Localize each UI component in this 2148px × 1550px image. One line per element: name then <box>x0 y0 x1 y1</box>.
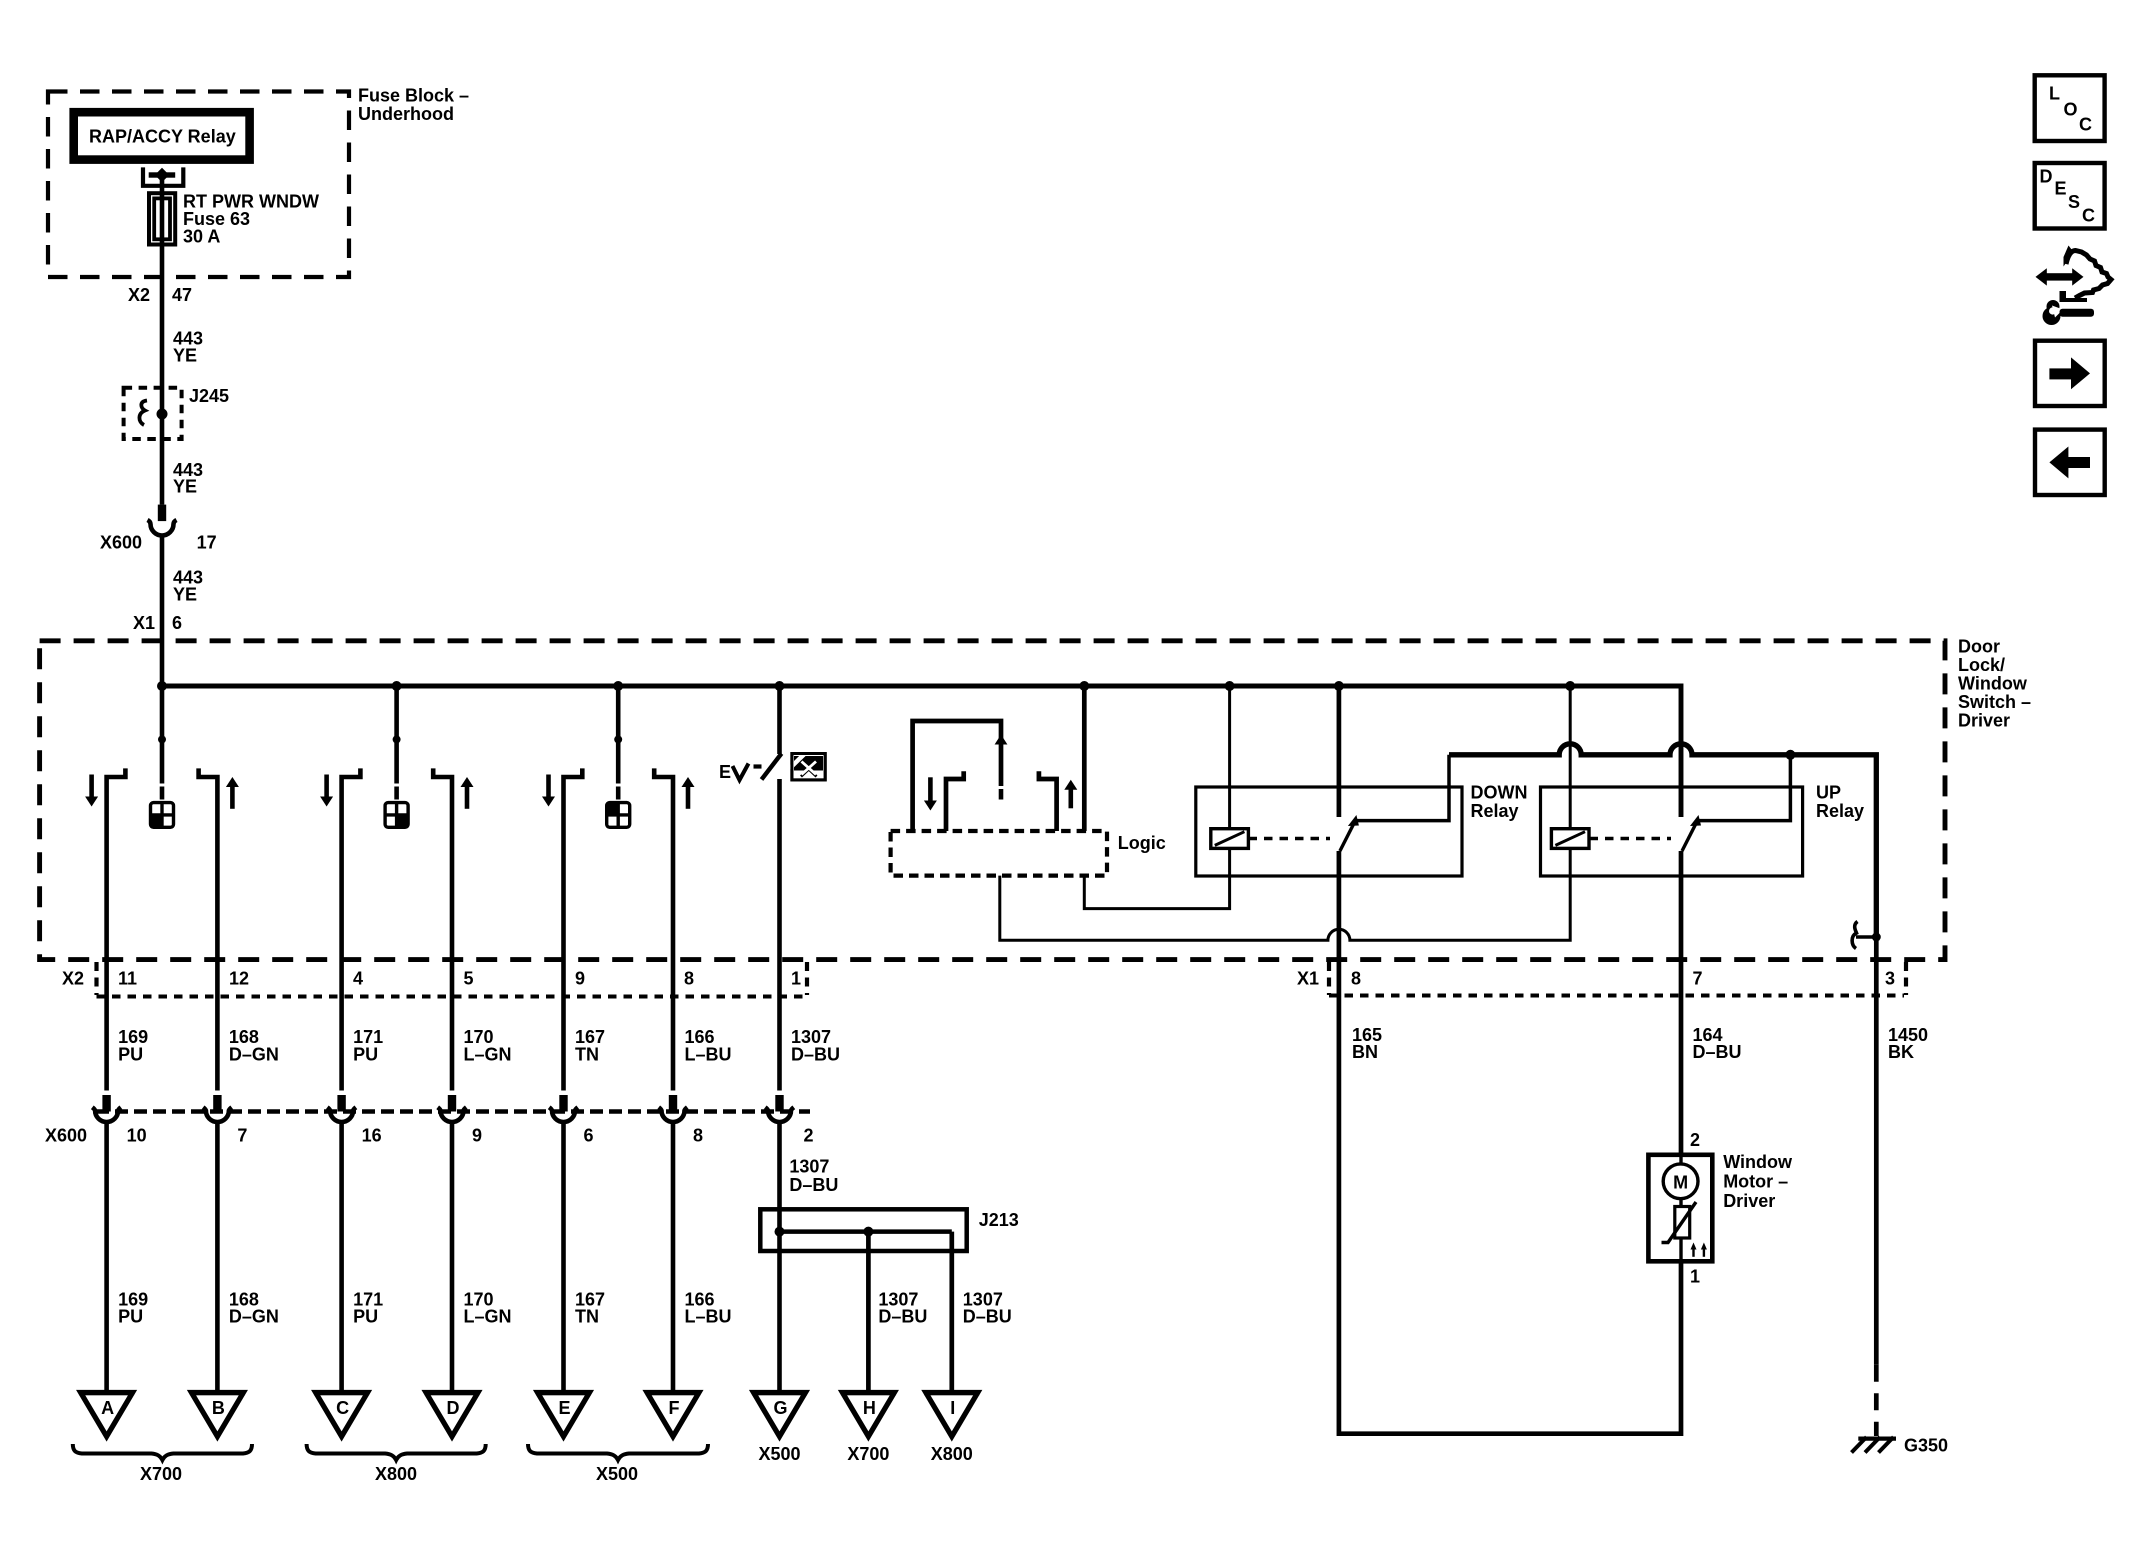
svg-text:X700: X700 <box>140 1464 182 1484</box>
svg-text:RAP/ACCY Relay: RAP/ACCY Relay <box>89 126 236 146</box>
connector X1 row <box>1297 962 1906 996</box>
svg-text:L–BU: L–BU <box>685 1307 732 1327</box>
svg-text:X500: X500 <box>596 1464 638 1484</box>
wire bus to DOWN relay coil <box>1228 686 1231 829</box>
label 168 D–GN mid <box>229 1027 279 1064</box>
UP relay blade <box>1682 815 1701 851</box>
label 165 BN <box>1352 1025 1382 1062</box>
switch group 3 center wire <box>614 686 622 800</box>
wire 1307 D–BU lower segment <box>777 1121 782 1391</box>
ground tap symbol <box>1852 922 1881 949</box>
svg-text:8: 8 <box>693 1125 703 1145</box>
wire 165 BN / motor return loop <box>1339 960 1681 1434</box>
label 168 D–GN lower <box>229 1289 279 1326</box>
icon back arrow box <box>2035 430 2105 495</box>
switch group 2 up contact <box>433 768 452 1090</box>
svg-text:D: D <box>447 1398 460 1418</box>
connector X2 row <box>62 962 807 997</box>
wire 1307 D-BU branch H <box>866 1232 871 1391</box>
svg-text:Relay: Relay <box>1816 801 1864 821</box>
svg-text:O: O <box>2064 100 2078 120</box>
label 170 L–GN lower <box>464 1289 512 1326</box>
svg-text:Window: Window <box>1958 674 2028 694</box>
motor circle M <box>1663 1164 1698 1199</box>
label 171 PU mid <box>353 1027 383 1064</box>
svg-text:C: C <box>2082 206 2095 226</box>
icon LOC box <box>2035 75 2105 141</box>
svg-text:YE: YE <box>173 584 197 604</box>
logic output wire 1 to down relay coil <box>1084 848 1229 908</box>
label Door Lock/ Window Switch - Driver <box>1958 636 2031 730</box>
wire bus corner to UP relay common <box>1570 686 1681 817</box>
wire bus to logic box <box>1082 686 1087 831</box>
svg-text:6: 6 <box>584 1125 594 1145</box>
svg-text:E: E <box>2055 179 2067 199</box>
svg-text:L–BU: L–BU <box>685 1044 732 1064</box>
wire 443 YE from fuse to door switch <box>160 245 165 505</box>
svg-text:8: 8 <box>684 968 694 988</box>
brace X700 <box>73 1444 252 1460</box>
DOWN relay box <box>1196 787 1462 876</box>
UP relay box <box>1541 787 1803 876</box>
J213 internal bus <box>775 1227 952 1237</box>
switch group 3 down contact <box>564 768 583 1090</box>
label 164 D-BU <box>1693 1025 1742 1062</box>
brace X800 <box>307 1444 486 1460</box>
svg-text:M: M <box>1673 1172 1688 1192</box>
svg-text:X1: X1 <box>133 613 155 633</box>
svg-text:TN: TN <box>575 1044 599 1064</box>
UP relay common lower wire to motor <box>1679 851 1684 1155</box>
svg-text:11: 11 <box>118 968 137 988</box>
switch group 3 down arrow <box>542 775 555 807</box>
window lockout switch wire top <box>777 686 782 754</box>
icon forward arrow box <box>2035 341 2105 406</box>
wire main feed bus <box>162 684 1681 689</box>
svg-text:PU: PU <box>353 1307 378 1327</box>
X600 pin numbers <box>127 1125 814 1145</box>
label 1307 D-BU branch I <box>963 1289 1012 1326</box>
wire 443 YE to door box <box>160 538 165 687</box>
switch group 1 center wire <box>158 686 166 800</box>
wire 170 L–GN lower segment <box>450 1121 455 1391</box>
svg-text:L–GN: L–GN <box>464 1044 512 1064</box>
icon harness wrench <box>2036 246 2112 326</box>
label X2 47 <box>128 285 192 305</box>
svg-text:1: 1 <box>791 968 801 988</box>
svg-text:L–GN: L–GN <box>464 1307 512 1327</box>
svg-text:BK: BK <box>1888 1042 1914 1062</box>
fuse F63 <box>149 193 175 244</box>
svg-text:10: 10 <box>127 1125 147 1145</box>
connector terminal G <box>752 1393 807 1437</box>
DOWN relay fixed contact <box>1356 755 1449 821</box>
splice J245 hook symbol <box>139 401 167 426</box>
DOWN relay common lower wire 165 BN <box>1337 851 1342 960</box>
fuse block underhood dashed box <box>48 92 349 278</box>
label 443 YE (3) <box>173 568 203 605</box>
svg-text:UP: UP <box>1816 783 1841 803</box>
UP relay coil <box>1551 829 1589 849</box>
svg-text:S: S <box>2068 192 2080 212</box>
svg-text:PU: PU <box>118 1307 143 1327</box>
svg-text:I: I <box>950 1398 955 1418</box>
svg-text:X1: X1 <box>1297 968 1319 988</box>
svg-text:D–GN: D–GN <box>229 1044 279 1064</box>
logic loop dash <box>999 789 1004 800</box>
svg-text:12: 12 <box>229 968 249 988</box>
svg-text:G: G <box>773 1398 787 1418</box>
svg-text:X2: X2 <box>128 285 150 305</box>
svg-text:D–GN: D–GN <box>229 1307 279 1327</box>
logic up arrow <box>1064 780 1077 809</box>
connector terminal B <box>190 1393 245 1437</box>
splice J245 dashed box <box>124 388 182 439</box>
label 166 L–BU mid <box>685 1027 732 1064</box>
relay K: RAP/ACCY Relay box <box>74 112 250 159</box>
switch group 2 center wire <box>393 686 401 800</box>
svg-text:D–BU: D–BU <box>789 1175 838 1195</box>
connector terminal A <box>79 1393 134 1437</box>
connector terminal F <box>646 1393 701 1437</box>
switch group 3 up arrow <box>682 777 695 809</box>
label UP Relay <box>1816 783 1864 822</box>
motor thermistor <box>1662 1202 1697 1243</box>
wire 168 D–GN lower segment <box>215 1121 220 1391</box>
svg-text:9: 9 <box>472 1125 482 1145</box>
svg-text:Underhood: Underhood <box>358 104 454 124</box>
X1 pin numbers <box>1351 968 1895 988</box>
switch group 3 up contact <box>654 768 673 1090</box>
svg-text:X700: X700 <box>847 1444 889 1464</box>
splice pack J213 box <box>760 1209 966 1251</box>
label 169 PU mid <box>118 1027 148 1064</box>
motor M1 window motor driver box <box>1648 1155 1712 1262</box>
svg-text:H: H <box>863 1398 876 1418</box>
junction dot fixed contacts <box>1785 750 1795 760</box>
svg-text:YE: YE <box>173 346 197 366</box>
connector X600 pin 17 symbol <box>148 505 177 536</box>
X600 connector cups <box>92 1095 794 1122</box>
logic down contact <box>946 771 964 831</box>
svg-text:J245: J245 <box>189 386 229 406</box>
svg-text:F: F <box>669 1398 680 1418</box>
svg-text:BN: BN <box>1352 1042 1378 1062</box>
switch group 2 down contact <box>342 768 361 1090</box>
svg-text:C: C <box>336 1398 349 1418</box>
switch group 1 down contact <box>107 768 126 1090</box>
label X600 17 <box>100 533 217 553</box>
label 167 TN lower <box>575 1289 605 1326</box>
wire 1450 BK to ground <box>1874 937 1879 1365</box>
svg-text:5: 5 <box>464 968 474 988</box>
UP relay fixed contact <box>1697 755 1790 821</box>
svg-text:Fuse Block –: Fuse Block – <box>358 86 469 106</box>
svg-text:Window: Window <box>1723 1152 1793 1172</box>
svg-text:7: 7 <box>1693 968 1703 988</box>
DOWN relay actuator dashes <box>1249 837 1331 841</box>
wire 169 PU lower segment <box>104 1121 109 1391</box>
svg-text:G350: G350 <box>1904 1436 1948 1456</box>
svg-text:6: 6 <box>172 613 182 633</box>
wire 171 PU lower segment <box>339 1121 344 1391</box>
switch group 2 window icon <box>385 803 408 828</box>
svg-text:X600: X600 <box>100 533 142 553</box>
svg-text:D: D <box>2040 167 2053 187</box>
dash link to lock switch <box>754 764 762 768</box>
brace X500 <box>528 1444 708 1460</box>
switch group 1 down arrow <box>85 775 98 807</box>
connector terminal C <box>314 1393 369 1437</box>
junction dots on bus <box>157 681 1575 691</box>
svg-text:X2: X2 <box>62 968 84 988</box>
label Window Motor - Driver <box>1723 1152 1793 1211</box>
svg-text:Motor –: Motor – <box>1723 1171 1788 1191</box>
label 1307 D-BU above J213 <box>789 1156 838 1195</box>
DOWN relay blade <box>1340 815 1359 851</box>
label X1 6 <box>133 613 182 633</box>
svg-text:D–BU: D–BU <box>791 1044 840 1064</box>
svg-text:C: C <box>2079 115 2092 135</box>
window lockout switch blade <box>762 754 782 780</box>
logic dashed box <box>891 831 1107 876</box>
svg-text:30 A: 30 A <box>183 227 220 247</box>
svg-text:3: 3 <box>1885 968 1895 988</box>
window lockout switch wire bottom <box>777 779 782 1091</box>
relay contact symbol <box>143 167 183 193</box>
window lockout icon <box>790 751 826 780</box>
svg-text:D–BU: D–BU <box>963 1307 1012 1327</box>
svg-text:PU: PU <box>118 1044 143 1064</box>
svg-text:X500: X500 <box>758 1444 800 1464</box>
label Fuse Block Underhood <box>358 86 469 125</box>
label 170 L–GN mid <box>464 1027 512 1064</box>
switch group 1 window icon <box>151 803 174 828</box>
logic down arrow <box>924 777 937 810</box>
label DOWN Relay <box>1471 783 1528 822</box>
wire bus to DOWN relay common <box>1337 686 1342 817</box>
logic loop arrowhead <box>995 735 1008 745</box>
ground G350 symbol <box>1852 1437 1897 1453</box>
svg-text:J213: J213 <box>979 1210 1019 1230</box>
svg-text:L: L <box>2049 84 2060 104</box>
wire 1450 BK dashed to ground <box>1874 1365 1879 1436</box>
connector X600 row dashes <box>96 1109 810 1114</box>
DOWN relay coil <box>1211 829 1249 849</box>
switch group 2 down arrow <box>320 775 333 807</box>
switch group 1 up contact <box>199 768 218 1090</box>
X2 pin numbers <box>118 968 801 988</box>
label 1307 D-BU branch H <box>878 1289 927 1326</box>
connector terminal H <box>841 1393 896 1437</box>
logic loop wire <box>913 721 1001 831</box>
svg-text:2: 2 <box>804 1125 814 1145</box>
svg-text:Lock/: Lock/ <box>1958 655 2005 675</box>
svg-text:17: 17 <box>197 533 217 553</box>
svg-text:Logic: Logic <box>1118 833 1166 853</box>
label E with check <box>719 762 749 782</box>
label 1307 D–BU mid <box>791 1027 840 1064</box>
motor direction arrows <box>1691 1243 1707 1257</box>
svg-text:8: 8 <box>1351 968 1361 988</box>
svg-text:Relay: Relay <box>1471 801 1519 821</box>
svg-text:X600: X600 <box>45 1125 87 1145</box>
svg-text:Driver: Driver <box>1723 1191 1775 1211</box>
wire relay contacts to ground lead <box>1449 744 1876 937</box>
svg-text:7: 7 <box>237 1125 247 1145</box>
svg-text:1: 1 <box>1690 1267 1700 1287</box>
svg-text:E: E <box>558 1398 570 1418</box>
svg-text:Door: Door <box>1958 636 2000 656</box>
logic output wire 2 to up relay coil <box>1000 848 1570 940</box>
label 171 PU lower <box>353 1289 383 1326</box>
connector terminal I <box>924 1393 979 1437</box>
switch group 1 up arrow <box>226 777 239 809</box>
svg-text:9: 9 <box>575 968 585 988</box>
logic up contact <box>1039 771 1057 831</box>
svg-text:B: B <box>212 1398 225 1418</box>
svg-text:47: 47 <box>172 285 192 305</box>
svg-text:16: 16 <box>362 1125 382 1145</box>
svg-text:DOWN: DOWN <box>1471 783 1528 803</box>
connector terminal D <box>425 1393 480 1437</box>
svg-text:D–BU: D–BU <box>1693 1042 1742 1062</box>
svg-text:Switch –: Switch – <box>1958 692 2031 712</box>
svg-text:X800: X800 <box>375 1464 417 1484</box>
svg-text:D–BU: D–BU <box>878 1307 927 1327</box>
svg-text:TN: TN <box>575 1307 599 1327</box>
UP relay actuator dashes <box>1590 837 1672 841</box>
icon DESC box <box>2035 163 2105 229</box>
switch group 2 up arrow <box>461 777 474 809</box>
wire 166 L–BU lower segment <box>671 1121 676 1391</box>
svg-text:PU: PU <box>353 1044 378 1064</box>
svg-text:Driver: Driver <box>1958 711 2010 731</box>
svg-text:E: E <box>719 762 731 782</box>
label 443 YE (1) <box>173 329 203 366</box>
wire 167 TN lower segment <box>561 1121 566 1391</box>
motor internal wire <box>1679 1155 1682 1262</box>
switch group 3 window icon <box>607 803 630 828</box>
svg-text:4: 4 <box>353 968 363 988</box>
label 166 L–BU lower <box>685 1289 732 1326</box>
label RT PWR WNDW Fuse 63 30 A <box>183 192 319 247</box>
label 169 PU lower <box>118 1289 148 1326</box>
label 1450 BK <box>1888 1025 1928 1062</box>
door lock window switch driver dashed box <box>40 641 1945 960</box>
connector terminal E <box>536 1393 591 1437</box>
svg-text:X800: X800 <box>931 1444 973 1464</box>
label 443 YE (2) <box>173 460 203 497</box>
svg-text:2: 2 <box>1690 1130 1700 1150</box>
wire bus to UP relay coil <box>1569 686 1572 829</box>
svg-text:YE: YE <box>173 477 197 497</box>
wire 1307 D-BU branch I <box>949 1232 954 1391</box>
svg-text:A: A <box>101 1398 114 1418</box>
label 167 TN mid <box>575 1027 605 1064</box>
svg-text:1307: 1307 <box>789 1156 829 1176</box>
